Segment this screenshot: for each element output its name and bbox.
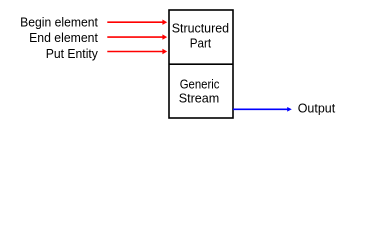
arrow End element <box>107 34 167 39</box>
label "Structured Part" <box>172 21 229 51</box>
box outline (Structured Part / Generic Stream block) <box>169 10 233 118</box>
arrow Put Entity <box>107 49 167 54</box>
divider line between sections <box>169 63 233 65</box>
label "Generic Stream" <box>179 77 220 106</box>
svg-text:Structured: Structured <box>172 21 229 36</box>
svg-text:Output: Output <box>298 101 336 116</box>
svg-text:Stream: Stream <box>179 91 220 106</box>
svg-text:Generic: Generic <box>180 77 220 92</box>
svg-text:End element: End element <box>29 30 98 45</box>
arrow Output (blue) <box>233 107 292 112</box>
arrow Begin element <box>107 20 167 25</box>
svg-text:Part: Part <box>190 36 212 51</box>
svg-text:Begin element: Begin element <box>20 15 98 30</box>
svg-text:Put Entity: Put Entity <box>46 46 99 61</box>
